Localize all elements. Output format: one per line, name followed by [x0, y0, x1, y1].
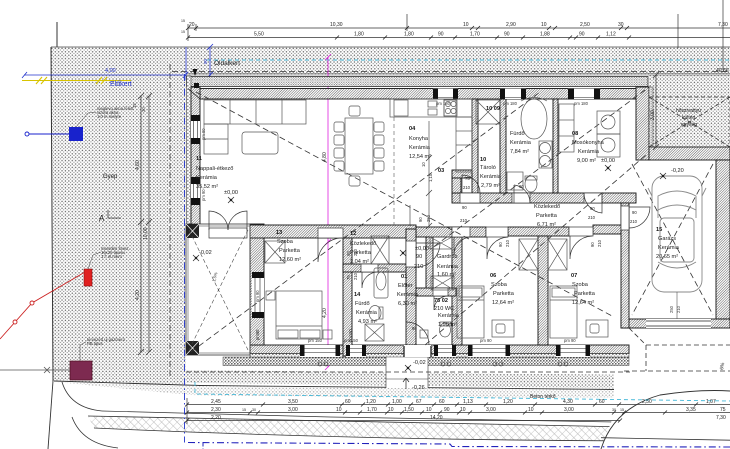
- svg-text:1,10: 1,10: [428, 173, 433, 182]
- svg-text:20: 20: [189, 22, 195, 28]
- svg-text:210: 210: [676, 305, 681, 313]
- svg-text:3,00: 3,00: [288, 407, 298, 413]
- svg-text:210: 210: [597, 239, 602, 247]
- svg-text:250: 250: [426, 214, 431, 222]
- closets 06/07: [519, 239, 538, 270]
- svg-text:75: 75: [346, 275, 351, 280]
- svg-text:1,70: 1,70: [470, 32, 480, 38]
- svg-text:3,00: 3,00: [650, 110, 656, 120]
- cyan utility dashed lines: [207, 59, 730, 61]
- svg-text:15: 15: [132, 103, 137, 108]
- bath09 sinks: [540, 143, 551, 154]
- svg-text:Konyha: Konyha: [409, 136, 429, 142]
- svg-text:Parketta: Parketta: [536, 213, 558, 219]
- svg-text:14: 14: [354, 292, 361, 298]
- svg-text:3,50: 3,50: [288, 399, 298, 405]
- svg-text:3,00: 3,00: [564, 407, 574, 413]
- bath14 door: [361, 264, 378, 272]
- svg-text:75: 75: [465, 176, 470, 181]
- svg-text:90: 90: [498, 242, 503, 247]
- svg-text:20,65 m²: 20,65 m²: [656, 254, 678, 260]
- svg-text:10: 10: [421, 162, 426, 167]
- svg-text:15: 15: [620, 408, 624, 412]
- terrace double door from living: [209, 228, 247, 238]
- level markers (x-dot): [193, 165, 666, 389]
- room13 closet: [265, 241, 285, 263]
- svg-text:35,52 m²: 35,52 m²: [196, 184, 218, 190]
- svg-text:±0,00: ±0,00: [415, 246, 429, 252]
- svg-text:14,20: 14,20: [430, 415, 443, 421]
- svg-text:Gardrób: Gardrób: [437, 254, 458, 260]
- left lower road edge: [48, 381, 53, 449]
- svg-text:12,64 m²: 12,64 m²: [572, 300, 594, 306]
- magenta dimension line: [325, 54, 331, 370]
- svg-text:04: 04: [409, 126, 416, 132]
- svg-text:1,70: 1,70: [367, 407, 377, 413]
- road hatched median strip: [88, 416, 730, 441]
- svg-text:pm90: pm90: [255, 329, 260, 340]
- garage door from house: [621, 206, 629, 230]
- svg-text:±0,00: ±0,00: [601, 158, 615, 164]
- svg-text:210: 210: [463, 185, 471, 190]
- svg-text:210: 210: [414, 264, 423, 270]
- svg-text:Kerámia: Kerámia: [438, 313, 460, 319]
- svg-text:75 02: 75 02: [434, 298, 448, 304]
- 06/07 wall: [538, 236, 548, 345]
- svg-text:Szoba: Szoba: [491, 282, 508, 288]
- top wall: masonry: [188, 89, 648, 100]
- svg-text:210: 210: [588, 215, 596, 220]
- room13 door: [318, 228, 343, 238]
- svg-text:Beton térkő: Beton térkő: [530, 394, 556, 400]
- svg-text:5,50: 5,50: [254, 32, 264, 38]
- hall W wall: [406, 229, 416, 345]
- beds 06/07: [457, 286, 484, 338]
- kitchen counter: [390, 99, 472, 117]
- svg-text:pm 90: pm 90: [201, 189, 206, 201]
- blue water box + line: [69, 127, 83, 141]
- red utility box: [84, 269, 92, 286]
- room13 west window: [252, 272, 264, 318]
- svg-text:Oldalkert: Oldalkert: [214, 60, 240, 67]
- svg-text:210: 210: [353, 248, 358, 256]
- top wall windows: [433, 88, 600, 100]
- svg-text:4,20: 4,20: [322, 308, 328, 318]
- svg-text:90: 90: [519, 184, 524, 189]
- stipple ground: left field: [51, 75, 186, 385]
- svg-text:hőszivattyú: hőszivattyú: [676, 108, 701, 114]
- svg-text:Kerámia: Kerámia: [480, 174, 502, 180]
- kitchen/taroló wall: [472, 99, 478, 193]
- svg-text:2,50: 2,50: [580, 22, 590, 28]
- svg-text:10: 10: [460, 407, 466, 413]
- svg-text:Parketta: Parketta: [493, 291, 515, 297]
- terrace corner columns: [186, 224, 199, 238]
- sidewalk wedge above road line: [54, 370, 730, 390]
- garage right wall: [716, 160, 730, 319]
- garage top wall: [649, 147, 730, 160]
- 07/garage wall: [621, 203, 629, 328]
- svg-text:6,30 m²: 6,30 m²: [398, 301, 417, 307]
- black dashed setback left vertical: [169, 64, 171, 378]
- svg-text:12: 12: [350, 231, 356, 237]
- sill drains: [318, 362, 568, 366]
- svg-text:3,35: 3,35: [686, 407, 696, 413]
- room06 W wall: [452, 237, 462, 345]
- bath09 door: [512, 193, 530, 203]
- svg-text:30: 30: [612, 408, 616, 412]
- corr12 to hall: [406, 241, 416, 267]
- svg-text:Parketta: Parketta: [279, 248, 301, 254]
- svg-text:1,0 m melyre: 1,0 m melyre: [97, 114, 122, 119]
- road line A (near curb): [54, 381, 614, 390]
- svg-text:90: 90: [416, 254, 422, 260]
- svg-text:Szoba: Szoba: [572, 282, 589, 288]
- corridor N wall (kitchen/bath row S wall): [452, 193, 636, 203]
- svg-text:Nappali-étkező: Nappali-étkező: [196, 166, 233, 172]
- gardrob03 closets: [430, 237, 452, 249]
- svg-text:Parketta: Parketta: [574, 291, 596, 297]
- gardrob03 W stub: [426, 237, 433, 290]
- svg-text:Kerámia: Kerámia: [409, 145, 431, 151]
- WC divider: [416, 288, 456, 296]
- svg-text:10: 10: [463, 22, 469, 28]
- mosokonyha door: [584, 193, 602, 203]
- house right wall (NE): [636, 87, 649, 160]
- living: corner sofa: [204, 100, 306, 124]
- svg-text:12,64 m²: 12,64 m²: [492, 300, 514, 306]
- 3,00 vertical dim right: [653, 72, 659, 150]
- svg-text:90: 90: [346, 251, 351, 256]
- svg-text:2,04 m²: 2,04 m²: [350, 259, 369, 265]
- corr12 closet: [371, 236, 389, 264]
- svg-text:210: 210: [353, 272, 358, 280]
- red electric line: [0, 272, 85, 339]
- svg-text:90: 90: [444, 407, 450, 413]
- svg-text:1,20: 1,20: [366, 399, 376, 405]
- svg-text:210: 210: [505, 239, 510, 247]
- flooring boundary dashed: [393, 117, 395, 225]
- svg-text:7,30: 7,30: [716, 415, 726, 421]
- svg-text:01: 01: [401, 274, 407, 280]
- left vertical dims: [138, 93, 152, 355]
- svg-text:210 WC: 210 WC: [434, 306, 454, 312]
- left wall masonry: [191, 87, 200, 225]
- svg-text:60: 60: [599, 399, 605, 405]
- svg-text:1,50: 1,50: [404, 407, 414, 413]
- blue dimension: 4,00 Elokert: [22, 44, 213, 80]
- svg-text:Kerámia: Kerámia: [397, 292, 419, 298]
- svg-text:1,20: 1,20: [503, 399, 513, 405]
- svg-text:60: 60: [345, 399, 351, 405]
- svg-text:2,50: 2,50: [642, 399, 652, 405]
- car in garage: [648, 176, 706, 292]
- bath09 washer: [507, 172, 523, 190]
- svg-text:7,30: 7,30: [718, 22, 728, 28]
- svg-text:90: 90: [462, 205, 467, 210]
- svg-text:Gyep: Gyep: [103, 174, 118, 180]
- svg-text:1 f. el.mero: 1 f. el.mero: [101, 254, 123, 259]
- svg-text:Közlekedő: Közlekedő: [350, 241, 376, 247]
- svg-text:Tároló: Tároló: [480, 165, 496, 171]
- svg-text:10: 10: [426, 407, 432, 413]
- svg-text:10: 10: [480, 157, 486, 163]
- small rotated dims inside: [255, 162, 433, 342]
- svg-text:Előkert: Előkert: [110, 81, 132, 88]
- svg-text:03: 03: [438, 168, 444, 174]
- svg-text:pm 180: pm 180: [574, 101, 589, 106]
- yellow gas line: [22, 77, 131, 84]
- room13/corr12 wall: [343, 238, 352, 356]
- svg-text:1,80: 1,80: [354, 32, 364, 38]
- corridor S wall segs: [416, 227, 486, 237]
- room06 door: [486, 227, 508, 237]
- svg-text:4,20: 4,20: [135, 290, 141, 300]
- svg-text:egység: egység: [681, 122, 697, 128]
- bottom wall windows: [300, 345, 590, 357]
- svg-text:1,12: 1,12: [606, 32, 616, 38]
- svg-text:A: A: [99, 214, 105, 223]
- svg-text:Közlekedő: Közlekedő: [534, 204, 560, 210]
- corr12-bath14 divider: [343, 264, 416, 272]
- svg-text:210: 210: [630, 219, 638, 224]
- svg-text:Fürdő: Fürdő: [510, 131, 525, 137]
- entrance walkway white gap: [386, 357, 428, 388]
- bath09 tub: [521, 99, 547, 139]
- svg-text:Előtér: Előtér: [398, 283, 413, 289]
- top wall: insulation: [187, 77, 649, 87]
- svg-text:Fürdő: Fürdő: [355, 301, 370, 307]
- desks 06/07 + chairs: [492, 320, 514, 337]
- coffee table: [242, 132, 278, 154]
- svg-text:06: 06: [490, 273, 496, 279]
- garage door gap: [646, 319, 711, 328]
- svg-text:10: 10: [528, 407, 534, 413]
- svg-text:10,30: 10,30: [330, 22, 343, 28]
- svg-text:90: 90: [632, 210, 637, 215]
- bath14 tub: [374, 268, 388, 298]
- svg-text:90: 90: [590, 242, 595, 247]
- svg-text:90: 90: [418, 217, 423, 222]
- svg-text:3,00: 3,00: [486, 407, 496, 413]
- svg-text:10 09: 10 09: [486, 106, 500, 112]
- svg-text:6,71 m²: 6,71 m²: [537, 222, 556, 228]
- svg-text:9,00 m²: 9,00 m²: [577, 158, 596, 164]
- bath09/mosókonyha wall: [553, 99, 558, 193]
- svg-text:pm150: pm150: [348, 329, 353, 342]
- svg-text:pm 90: pm 90: [564, 338, 576, 343]
- svg-text:15: 15: [181, 19, 185, 23]
- taroló shaft: [476, 100, 500, 124]
- svg-text:90: 90: [412, 326, 417, 331]
- svg-text:11: 11: [196, 156, 202, 162]
- svg-text:10,00: 10,00: [143, 227, 149, 240]
- svg-text:Kerámia: Kerámia: [578, 149, 600, 155]
- double fence line top: [186, 72, 730, 74]
- stipple ground: right field above garage: [649, 75, 730, 147]
- WC door: [433, 288, 448, 296]
- svg-text:Kerámia: Kerámia: [658, 245, 680, 251]
- entrance door gap: [404, 345, 431, 357]
- svg-text:30: 30: [141, 107, 146, 112]
- svg-text:4,60: 4,60: [135, 160, 141, 170]
- svg-text:90: 90: [203, 58, 208, 64]
- kitchen S stub: [452, 170, 472, 178]
- driveway arc lower left: [72, 417, 118, 448]
- room13 bed: [276, 291, 322, 339]
- svg-text:10: 10: [388, 407, 394, 413]
- blue dashed property line (vertical): [184, 74, 186, 443]
- svg-text:1,07: 1,07: [706, 399, 716, 405]
- svg-text:Kerámia: Kerámia: [437, 264, 459, 270]
- svg-text:Garázs: Garázs: [658, 236, 676, 242]
- svg-text:1,80: 1,80: [404, 32, 414, 38]
- door size labels: [346, 176, 638, 331]
- house bottom wall insulation: [250, 354, 629, 358]
- svg-text:pm 90: pm 90: [480, 338, 492, 343]
- dark blue dashed line bottom: [188, 443, 730, 448]
- svg-text:1,13: 1,13: [463, 399, 473, 405]
- svg-text:Mosókonyha: Mosókonyha: [572, 140, 605, 146]
- bath14 shower: [365, 324, 384, 341]
- svg-text:15: 15: [656, 227, 662, 233]
- site boundary left edge: [51, 47, 53, 381]
- room07 door: [569, 227, 593, 236]
- svg-text:30: 30: [618, 22, 624, 28]
- svg-text:2,90: 2,90: [506, 22, 516, 28]
- svg-text:15: 15: [242, 408, 246, 412]
- maroon box (gas): [70, 361, 92, 380]
- svg-text:08: 08: [572, 131, 578, 137]
- garage bottom wall: [621, 319, 730, 328]
- svg-text:2,20: 2,20: [211, 415, 221, 421]
- bath09 toilet: [525, 176, 537, 192]
- kitchen to corridor door: [460, 193, 480, 203]
- svg-text:-0,02: -0,02: [413, 360, 426, 366]
- svg-text:7,84 m²: 7,84 m²: [510, 149, 529, 155]
- svg-text:90: 90: [438, 32, 444, 38]
- left wall windows: [191, 115, 200, 144]
- svg-text:1,90 m²: 1,90 m²: [438, 322, 457, 328]
- mosókonyha appliances: [559, 104, 574, 152]
- svg-text:pm 90: pm 90: [201, 128, 206, 140]
- svg-text:210: 210: [460, 218, 468, 223]
- svg-text:pm 180: pm 180: [503, 101, 518, 106]
- svg-text:10: 10: [336, 407, 342, 413]
- svg-text:75: 75: [720, 407, 726, 413]
- svg-text:PB tipus: PB tipus: [87, 341, 103, 346]
- left wall insulation: [187, 76, 192, 225]
- garage driveway white cut + curve: [601, 391, 730, 449]
- svg-text:67: 67: [416, 399, 422, 405]
- svg-text:10: 10: [541, 22, 547, 28]
- svg-text:90: 90: [590, 206, 595, 211]
- svg-text:kültéri: kültéri: [682, 115, 695, 121]
- terrace / room13 wall: [250, 224, 264, 345]
- svg-text:-0,26: -0,26: [412, 385, 425, 391]
- svg-text:-0,02: -0,02: [199, 250, 212, 256]
- bath14 toilet: [369, 306, 381, 321]
- stipple ground: top band: [51, 22, 730, 385]
- svg-text:2,30: 2,30: [211, 407, 221, 413]
- svg-text:90: 90: [504, 32, 510, 38]
- svg-text:±0,00: ±0,00: [224, 190, 238, 196]
- svg-text:90: 90: [579, 32, 585, 38]
- svg-text:250: 250: [669, 305, 674, 313]
- dashed line below paving: [186, 371, 630, 373]
- living S wall: [191, 225, 416, 238]
- svg-text:15: 15: [181, 30, 185, 34]
- svg-text:Kerámia: Kerámia: [510, 140, 532, 146]
- svg-text:30: 30: [252, 408, 256, 412]
- driveway arc upper left: [62, 382, 102, 411]
- svg-text:Kerámia: Kerámia: [356, 310, 378, 316]
- svg-text:-0,20: -0,20: [671, 168, 684, 174]
- svg-text:4,00: 4,00: [105, 68, 116, 74]
- WC toilet + sink: [440, 323, 451, 337]
- svg-text:12,60 m²: 12,60 m²: [279, 257, 301, 263]
- svg-text:07: 07: [571, 273, 577, 279]
- svg-text:4,93 m²: 4,93 m²: [358, 319, 377, 325]
- svg-text:60: 60: [439, 399, 445, 405]
- svg-text:Szoba: Szoba: [277, 239, 294, 245]
- svg-text:2,45: 2,45: [211, 399, 221, 405]
- terrace small diagonals: [189, 230, 248, 350]
- gardrob door from corridor: [452, 227, 470, 237]
- taroló/bath09 wall: [500, 99, 506, 193]
- black dashed setback top: [172, 71, 730, 73]
- svg-text:2,79 m²: 2,79 m²: [481, 183, 500, 189]
- svg-text:1,88: 1,88: [540, 32, 550, 38]
- svg-text:1,00: 1,00: [392, 399, 402, 405]
- dashed setback over walkway: [386, 371, 428, 373]
- svg-text:pm 90: pm 90: [255, 290, 260, 302]
- svg-text:13: 13: [276, 230, 282, 236]
- svg-text:40,66: 40,66: [716, 68, 729, 74]
- svg-text:4,30: 4,30: [563, 399, 573, 405]
- svg-text:Kerámia: Kerámia: [196, 175, 218, 181]
- house bottom wall masonry: [250, 345, 629, 354]
- dining table + chairs: [345, 118, 373, 174]
- svg-text:1,60 m²: 1,60 m²: [437, 272, 456, 278]
